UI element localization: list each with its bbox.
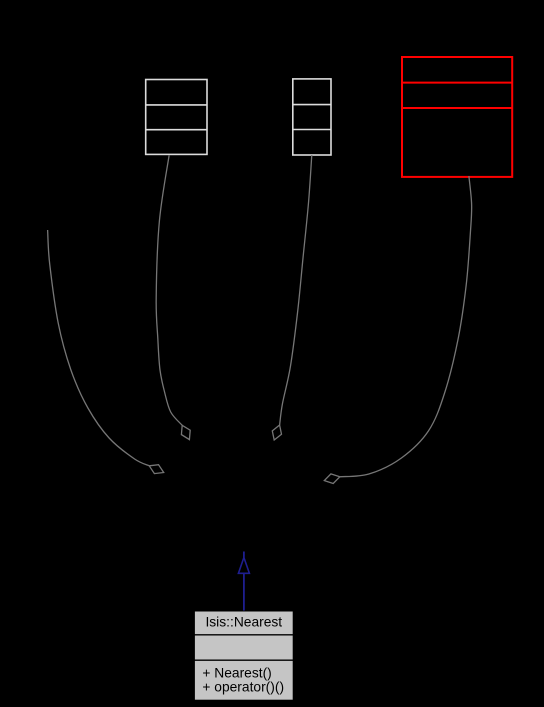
svg-text:+ operator()(): + operator()() (202, 680, 284, 695)
edge 3 (from box B) (280, 155, 312, 425)
class box C (red, truncated class) (402, 57, 512, 177)
class box B (3 compartments, white border) (293, 79, 331, 155)
edge 4 (from red box C) (340, 176, 472, 477)
inheritance edge stub (243, 552, 245, 558)
diamond 4 (open aggregation diamond) (324, 474, 340, 484)
class Isis::Nearest box (194, 611, 293, 700)
diamond 2 (open aggregation diamond) (181, 425, 190, 439)
class box A (3 compartments, white border) (146, 80, 207, 155)
svg-text:+ Nearest(): + Nearest() (202, 666, 271, 681)
inheritance arrowhead (hollow triangle) (238, 558, 249, 574)
inheritance edge (blue) (243, 573, 245, 611)
svg-text:Isis::Nearest: Isis::Nearest (205, 615, 282, 630)
diamond 3 (open aggregation diamond) (272, 425, 281, 440)
diamond 1 (open aggregation diamond) (149, 465, 164, 474)
edge 1 (far left aggregation curve) (48, 230, 150, 466)
edge 2 (from box A) (156, 155, 182, 425)
